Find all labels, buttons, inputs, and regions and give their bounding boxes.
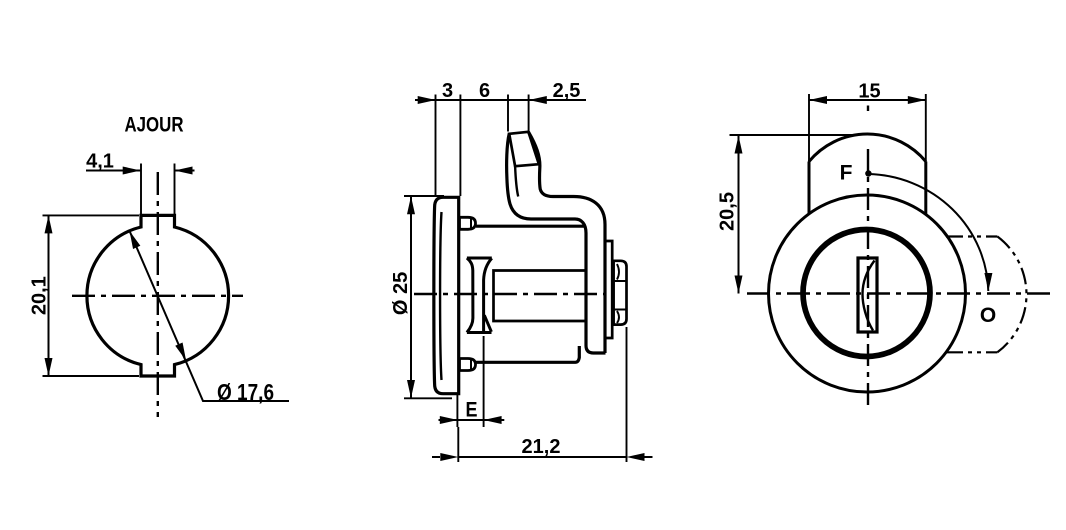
inner plug — [494, 271, 586, 322]
cam tab face — [509, 132, 539, 166]
washer — [606, 241, 613, 338]
svg-text:6: 6 — [479, 80, 490, 102]
svg-text:4,1: 4,1 — [86, 151, 114, 173]
centerline vertical (right view) — [867, 106, 869, 112]
top lug face line — [470, 217, 472, 229]
dim 15 arrows — [809, 96, 827, 104]
dim 20,1 extension lines — [43, 215, 140, 376]
svg-text:Ø 17,6: Ø 17,6 — [217, 379, 274, 405]
centerline horizontal (right view) — [747, 292, 1050, 294]
outer circle — [769, 195, 966, 392]
dim E arrows — [440, 416, 458, 424]
centerline horizontal (left view) — [72, 295, 243, 297]
bezel inner contour — [440, 212, 441, 380]
spring clip — [467, 258, 492, 333]
dim 20,1 line — [48, 215, 50, 376]
cam tab top arc — [809, 134, 926, 161]
cam outer edge — [507, 134, 606, 353]
nut facet arcs — [617, 264, 619, 323]
dim 20,5 extension line — [730, 134, 854, 136]
cutout outline: circle with slot — [87, 215, 229, 376]
dim 21,2 arrows — [440, 453, 458, 461]
svg-text:2,5: 2,5 — [553, 80, 581, 102]
nut facet lines — [614, 281, 627, 310]
rotation arrowhead — [984, 273, 992, 291]
phantom cam position (open) — [946, 237, 997, 353]
svg-text:O: O — [980, 304, 996, 327]
svg-text:E: E — [466, 399, 478, 422]
centerline horizontal (middle view) — [414, 293, 606, 295]
dim 15 extension lines — [809, 94, 926, 162]
svg-text:15: 15 — [858, 81, 880, 103]
svg-text:20,1: 20,1 — [29, 276, 51, 315]
cylinder face ring — [803, 230, 930, 357]
cam fold line — [515, 166, 518, 196]
top lug — [460, 217, 476, 229]
dim 21,2 extension lines — [458, 327, 626, 462]
body outline — [476, 225, 586, 228]
bezel outline — [434, 197, 459, 393]
dim 4,1 arrows — [123, 167, 141, 175]
cam tab sides — [809, 162, 926, 215]
keyway wafer curve — [863, 261, 875, 331]
dim 20,5 line — [738, 136, 740, 294]
bottom lug — [460, 359, 476, 371]
dim 15 line — [809, 99, 926, 101]
keyway — [858, 258, 877, 332]
rotation arrow arc — [868, 174, 988, 291]
dia 25 dim line — [410, 197, 412, 399]
dim 20,5 arrows — [735, 136, 743, 154]
svg-text:21,2: 21,2 — [522, 436, 561, 458]
dia 17,6 leader line — [130, 231, 290, 401]
dia 25 arrows — [407, 196, 415, 214]
svg-text:Ø 25: Ø 25 — [390, 272, 412, 315]
dim 4,1 extension lines — [141, 164, 175, 216]
dim E lines — [439, 419, 505, 421]
rotation start dot — [865, 170, 871, 176]
dim 20,1 arrows — [45, 215, 53, 233]
top dims extension ticks — [436, 95, 529, 197]
svg-text:AJOUR: AJOUR — [125, 113, 184, 137]
svg-text:3: 3 — [442, 80, 453, 102]
bottom lug face line — [470, 359, 472, 371]
dia 25 extension lines — [404, 196, 452, 398]
top dim arrows — [418, 96, 436, 104]
dia 17,6 arrows — [130, 231, 141, 249]
dim 21,2 line — [432, 456, 653, 458]
nut — [614, 261, 627, 325]
svg-text:F: F — [840, 162, 853, 185]
cam inner edge — [528, 132, 605, 353]
dim 4,1 lines — [86, 170, 195, 172]
dim E extension lines — [457, 336, 483, 427]
top dim line — [415, 99, 586, 101]
svg-text:20,5: 20,5 — [717, 192, 739, 231]
centerline vertical (left view) — [157, 172, 159, 417]
